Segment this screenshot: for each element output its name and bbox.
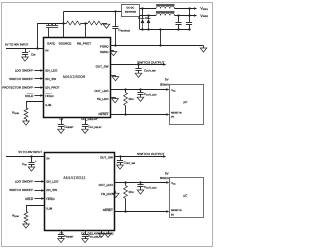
svg-text:SOURCE: SOURCE <box>59 41 72 45</box>
ground below C_OUT_SW (bottom) <box>117 165 124 169</box>
label PROTECTOR ON/OFF <box>2 85 33 89</box>
resistor R_ILIM (bottom) <box>12 212 28 225</box>
svg-text:MAX15008: MAX15008 <box>63 75 86 79</box>
svg-text:LDO ON/OFF: LDO ON/OFF <box>15 68 34 72</box>
label 5V 300mA (bottom) <box>160 172 169 181</box>
node D1 tap <box>141 7 143 9</box>
svg-text:LDO ON/OFF: LDO ON/OFF <box>15 179 34 183</box>
svg-text:SGND: SGND <box>100 50 110 54</box>
wire RB_PROT riser <box>85 23 87 38</box>
capacitor C_RESET (top) <box>58 117 74 129</box>
node input junction (top) <box>36 47 38 49</box>
block DC-DC (MAX5025) <box>122 5 140 17</box>
svg-text:PGND: PGND <box>100 45 110 49</box>
pin EN_PROT (U1) <box>45 85 59 89</box>
wire arrow EN_SW (bottom) <box>34 189 44 192</box>
svg-text:RESET IN: RESET IN <box>171 209 182 212</box>
svg-text:IN: IN <box>46 156 49 160</box>
inductor T1 winding 1 <box>156 5 175 9</box>
pin SGND (U1) <box>100 50 110 54</box>
wire ILIM (top) <box>26 102 44 109</box>
ground below R2 <box>103 24 110 28</box>
capacitor C_DC_DELAY (top) <box>82 117 102 129</box>
wire OUT_LDO (top) <box>110 88 169 91</box>
op-amp U2 MAX15011 box <box>45 153 115 231</box>
pin CT (U1) <box>60 117 64 121</box>
pin SOURCE (U1) <box>59 41 72 45</box>
svg-text:RESET IN: RESET IN <box>171 111 182 114</box>
ground FB_LDO (top) <box>112 99 119 103</box>
svg-text:VGG1: VGG1 <box>200 7 208 11</box>
capacitor C_OUT_LDO (top) <box>137 89 156 97</box>
ground PGND (U2) <box>98 231 104 238</box>
svg-text:300mA: 300mA <box>160 82 169 86</box>
ground SGND (U2) <box>105 231 111 238</box>
capacitor C_DC_DELAY (bottom) <box>82 231 102 239</box>
node OUT_SW cap tap (bottom) <box>119 155 121 157</box>
resistor R_PU (bottom) <box>124 183 135 212</box>
wire top rail to DC-DC <box>64 11 122 13</box>
diode D2 <box>145 16 150 29</box>
svg-text:IN: IN <box>45 48 48 52</box>
node rail-C3 <box>177 28 179 30</box>
svg-text:5V: 5V <box>165 172 169 176</box>
svg-text:EN_SW: EN_SW <box>46 188 57 192</box>
pin PGND (U1) <box>100 45 110 49</box>
wire arrow EN_PROT <box>34 86 43 89</box>
svg-text:VGG2: VGG2 <box>200 14 208 18</box>
wire arrow EN_LDO (top) <box>34 69 43 72</box>
ground below C_DC_DELAY (bottom) <box>82 239 89 243</box>
wire OUT_LDO (bottom) <box>115 181 170 184</box>
svg-text:DC-DC: DC-DC <box>127 6 135 9</box>
node C4 tap <box>188 7 190 9</box>
pin RESET (U2) <box>103 208 113 212</box>
svg-text:MAX15011: MAX15011 <box>63 176 85 180</box>
pin EN_SW (U1) <box>45 77 56 81</box>
label MAX15011 <box>63 176 85 180</box>
svg-text:ILIM: ILIM <box>45 103 51 107</box>
wire FB_LDO stub (top) <box>110 97 115 98</box>
svg-text:EN_LDO: EN_LDO <box>46 179 59 183</box>
node input junction (bottom) <box>30 155 32 157</box>
wire VGG1 feed <box>140 8 157 10</box>
svg-text:ILIM: ILIM <box>46 206 52 210</box>
ground below C_DC_DELAY (top) <box>82 129 89 133</box>
wire arrow EN_LDO (bottom) <box>34 180 44 183</box>
pin HOLD (U2) <box>46 197 55 201</box>
label HOLD input (top) <box>25 94 34 98</box>
svg-text:FB_LDO: FB_LDO <box>101 192 113 196</box>
ground below C_RESET (bottom) <box>58 239 65 243</box>
node RB_PROT divider <box>84 22 86 24</box>
wire arrow HOLD (top) <box>34 94 43 97</box>
ground below C_IN (bottom) <box>28 167 35 171</box>
wire DC-DC gnd drop <box>139 16 141 29</box>
pin OUT_SW (U2) <box>100 156 113 160</box>
svg-text:I/O: I/O <box>171 213 174 216</box>
svg-text:OUT_SW: OUT_SW <box>96 64 109 68</box>
svg-text:EN_SW: EN_SW <box>45 77 56 81</box>
svg-text:D2: D2 <box>145 17 147 20</box>
pin OUT_LDO (U2) <box>99 183 114 187</box>
capacitor C4 (VGG1) <box>186 8 192 29</box>
label 5V TO 40V INPUT (bottom) <box>19 150 43 154</box>
node rail-C4 <box>188 28 190 30</box>
ground below C_IN (top) <box>22 57 29 61</box>
capacitor C_OUT_SW (top) <box>135 65 156 73</box>
resistor R_PU (top) <box>124 89 135 114</box>
wire input to IN (U1) <box>6 48 44 50</box>
wire transformer bottom rail <box>140 29 190 31</box>
wire Q1 to top rail <box>63 11 65 23</box>
label VGG1 <box>200 7 208 11</box>
pin CT (U2) <box>60 232 64 236</box>
node rail-D1 <box>141 28 143 30</box>
resistor R2 RB_PROT-GND <box>85 21 107 25</box>
op-amp U1 MAX15008 box <box>44 38 111 118</box>
wire ILIM (bottom) <box>26 205 45 211</box>
node PGND-C_SOURCE <box>114 44 116 46</box>
svg-text:(MAX5025): (MAX5025) <box>125 11 136 14</box>
ground below R_ILIM (top) <box>23 121 30 125</box>
svg-text:5V TO 40V INPUT: 5V TO 40V INPUT <box>5 42 29 46</box>
pin IN (U2) <box>46 156 49 160</box>
pin RB_PROT (U1) <box>77 41 91 45</box>
label VGG2 <box>200 14 208 18</box>
capacitor C_IN (bottom) <box>22 157 37 168</box>
label SWITCH ON/OFF (bottom) <box>9 188 33 192</box>
svg-text:PROTECTOR ON/OFF: PROTECTOR ON/OFF <box>2 85 33 89</box>
svg-text:EN_LDO: EN_LDO <box>45 68 58 72</box>
svg-text:EN_PROT: EN_PROT <box>45 85 59 89</box>
ground below C_RESET (top) <box>58 129 65 133</box>
capacitor C_IN (top) <box>22 48 36 57</box>
resistor R_ILIM (top) <box>12 108 28 121</box>
label SWITCH OUTPUT (bottom) <box>137 152 165 156</box>
pin IN (U1) <box>45 48 48 52</box>
node Q1 source <box>62 22 64 24</box>
transistor Q1 protection pFET <box>38 23 64 38</box>
wire rail riser to PGND wire <box>160 29 162 45</box>
svg-text:GATE: GATE <box>47 41 55 45</box>
resistor R1 SOURCE-RB_PROT <box>64 21 85 25</box>
pin ILIM (U1) <box>45 103 51 107</box>
wire RESET to uC (top) <box>110 113 169 116</box>
label MAX15008 <box>63 75 86 79</box>
label HOLD input (bottom) <box>25 197 34 201</box>
pin HOLD (U1) <box>45 94 54 98</box>
node RESET R_PU (bottom) <box>124 210 126 212</box>
capacitor C_SOURCE <box>112 11 130 45</box>
ground FB_LDO (bottom) <box>113 193 120 197</box>
pin OUT_LDO (U1) <box>94 89 109 93</box>
svg-text:RESET: RESET <box>98 112 108 116</box>
wire exposed-pad gnd stub (U1) <box>110 75 115 76</box>
svg-text:I/O: I/O <box>171 116 174 119</box>
node rail-D2 <box>147 28 149 30</box>
svg-text:OUT_LDO: OUT_LDO <box>99 183 114 187</box>
pin EN_SW (U2) <box>46 188 57 192</box>
svg-text:SWITCH OUTPUT: SWITCH OUTPUT <box>137 60 165 64</box>
diode D1 <box>138 8 144 29</box>
svg-text:HOLD: HOLD <box>45 94 54 98</box>
wire winding2 to VGG2 arrow <box>175 14 198 17</box>
wire OUT_SW (top) <box>110 63 166 66</box>
node OUT_LDO R_PU tap (bottom) <box>124 181 126 183</box>
label 5V TO 40V INPUT (top) <box>5 42 29 46</box>
svg-text:D1: D1 <box>138 17 140 20</box>
ground exposed pad (U1) <box>112 77 119 81</box>
ground below R_ILIM (bottom) <box>23 224 30 228</box>
ground below C_OUT_LDO (bottom) <box>137 190 144 194</box>
wire VGG2 feed <box>140 15 157 17</box>
node C4 cross <box>188 14 190 16</box>
wire winding1 to VGG1 arrow <box>175 7 198 10</box>
wire OUT_SW (bottom) <box>115 155 167 158</box>
border frame <box>2 3 213 247</box>
pin EN_LDO (U1) <box>45 68 58 72</box>
svg-text:OUT_SW: OUT_SW <box>100 156 113 160</box>
wire FB_LDO stub (bottom) <box>115 192 116 194</box>
svg-text:VCC: VCC <box>171 89 176 92</box>
pin DC_DELAY (U2) <box>81 232 98 236</box>
wire PGND to system ground <box>110 45 203 47</box>
label SWITCH ON/OFF (top) <box>9 77 33 81</box>
label LDO ON/OFF (bottom) <box>15 179 34 183</box>
ground at PGND wire end <box>200 45 207 52</box>
ground below C_OUT_SW (top) <box>135 73 142 77</box>
wire RESET to uC (bottom) <box>115 210 170 213</box>
svg-text:FB_LDO: FB_LDO <box>97 97 109 101</box>
node OUT_LDO cap tap (bottom) <box>139 181 141 183</box>
node OUT_LDO cap tap (top) <box>139 88 141 90</box>
capacitor C_RESET (bottom) <box>58 231 74 239</box>
capacitor C3 (VGG2) <box>175 16 181 29</box>
svg-text:RB_PROT: RB_PROT <box>77 41 91 45</box>
svg-text:5V: 5V <box>165 77 169 81</box>
wire input riser to Q1 <box>37 23 39 48</box>
pin RESET (U1) <box>98 112 108 116</box>
svg-text:SWITCH ON/OFF: SWITCH ON/OFF <box>9 77 33 81</box>
node top rail C_SOURCE tap <box>114 10 116 12</box>
capacitor C_OUT_SW (bottom) <box>117 156 136 165</box>
pin DC_DELAY (U1) <box>81 117 98 121</box>
ground below C_OUT_LDO (top) <box>137 97 144 101</box>
svg-text:300mA: 300mA <box>160 176 169 180</box>
node OUT_LDO R_PU tap (top) <box>124 88 126 90</box>
svg-text:OUT_LDO: OUT_LDO <box>94 89 109 93</box>
svg-text:5V TO 40V INPUT: 5V TO 40V INPUT <box>19 150 43 154</box>
wire arrow HOLD (bottom) <box>34 197 44 200</box>
pin ILIM (U2) <box>46 206 52 210</box>
svg-text:HOLD: HOLD <box>25 94 34 98</box>
label LDO ON/OFF (top) <box>15 68 34 72</box>
svg-text:DC_DELAY: DC_DELAY <box>81 117 98 121</box>
pin FB_LDO (U1) <box>97 97 109 101</box>
wire arrow EN_SW (top) <box>34 77 43 80</box>
pin GATE (U1) <box>47 41 55 45</box>
capacitor C_OUT_LDO (bottom) <box>137 183 156 190</box>
node PGND-rail riser <box>159 44 161 46</box>
label 5V 300mA (top) <box>160 77 169 86</box>
pin EN_LDO (U2) <box>46 179 59 183</box>
block uC (bottom) <box>170 178 204 218</box>
svg-text:SWITCH ON/OFF: SWITCH ON/OFF <box>9 188 33 192</box>
block uC (top) <box>170 85 204 125</box>
pin OUT_SW (U1) <box>96 64 109 68</box>
label SWITCH OUTPUT (top) <box>137 60 165 64</box>
wire SOURCE pin riser <box>63 23 65 38</box>
node RESET R_PU (top) <box>124 113 126 115</box>
svg-text:SWITCH OUTPUT: SWITCH OUTPUT <box>137 152 165 156</box>
wire SGND stub <box>110 50 113 51</box>
node C3 tap <box>177 14 179 16</box>
ground SGND (U1) <box>110 52 117 56</box>
node OUT_SW cap tap (top) <box>137 63 139 65</box>
node D2 tap <box>147 14 149 16</box>
wire input to IN (U2) <box>6 156 45 158</box>
svg-text:VCC: VCC <box>171 182 176 185</box>
pin FB_LDO (U2) <box>101 192 113 196</box>
pin PGND-SGND (U2) <box>98 232 115 236</box>
node rail-PGND riser <box>159 28 161 30</box>
inductor T1 winding 2 <box>156 12 175 16</box>
